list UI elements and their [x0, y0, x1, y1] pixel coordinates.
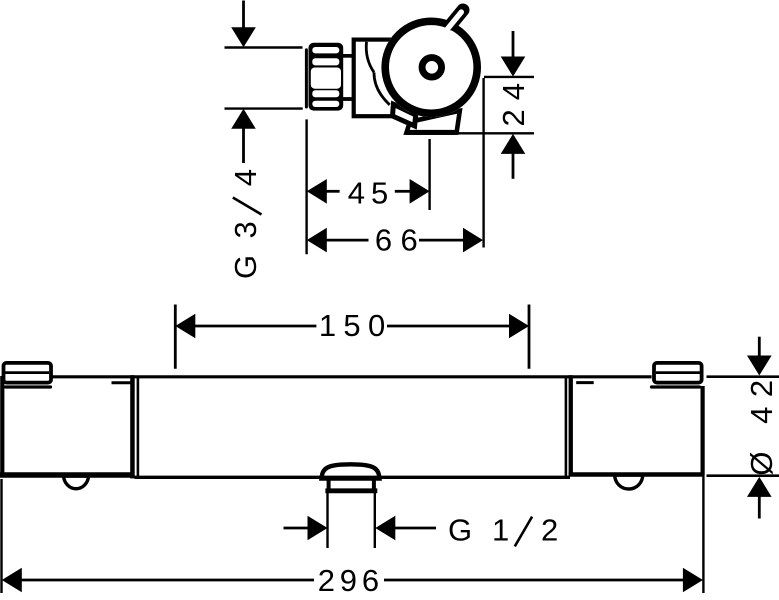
G 1/2 left extension line — [326, 493, 328, 548]
outlet box left edge — [327, 478, 331, 491]
foot plate bottom edge — [406, 130, 457, 135]
lever inner white — [447, 12, 462, 30]
dimension G 3/4 bottom arrow — [231, 109, 256, 129]
dimension G 3/4 bottom extension line — [225, 107, 303, 109]
svg-text:G: G — [228, 255, 263, 279]
cartridge scallop lower petal — [374, 72, 390, 105]
bar top edge — [2, 375, 652, 378]
foot plate — [407, 111, 460, 133]
dimension 150 right extension line — [528, 305, 531, 369]
right bar edge thin — [565, 376, 568, 476]
right block bottom edge — [569, 472, 703, 477]
extension line below nut — [305, 119, 307, 254]
right volume knob tab — [615, 475, 643, 489]
union nut chamfer bar — [305, 48, 308, 108]
bracket band — [393, 104, 416, 126]
handle disc ring — [385, 21, 477, 113]
dimension G 3/4 top extension line — [225, 46, 303, 48]
neck top bar — [342, 54, 354, 58]
left block bottom edge — [0, 472, 135, 478]
left wall cap — [4, 363, 52, 383]
dimension 24 bottom extension line — [458, 132, 534, 134]
dimension G 3/4 top arrow — [242, 1, 245, 30]
extension line below foot center — [428, 139, 430, 210]
dimension 296 right extension line — [702, 474, 704, 593]
dimension 24 top arrow — [512, 31, 515, 59]
diameter 42 top arrow — [758, 337, 761, 358]
svg-text:66: 66 — [375, 222, 426, 257]
right divider — [569, 375, 573, 474]
diameter 42 bottom extension line — [707, 474, 779, 477]
left divider — [130, 375, 135, 478]
dimension 150 — [175, 314, 195, 339]
outlet box right edge — [372, 478, 376, 491]
dimension 296 left extension line — [0, 479, 2, 593]
diameter 42 bottom arrow — [747, 477, 772, 497]
outlet box bottom edge — [325, 488, 377, 493]
svg-text:150: 150 — [319, 308, 393, 343]
right wall cap — [654, 363, 702, 383]
left equals mark — [112, 381, 132, 384]
svg-text:4: 4 — [228, 169, 263, 186]
svg-text:2: 2 — [541, 513, 558, 548]
left block left edge — [0, 376, 4, 477]
left volume knob tab — [64, 476, 89, 489]
dimension 24 top extension line — [484, 76, 534, 78]
svg-text:Ø 42: Ø 42 — [744, 370, 779, 475]
G 1/2 right extension line — [374, 493, 376, 548]
union nut body — [309, 43, 344, 111]
union nut slot 4 — [312, 101, 339, 107]
svg-text:3: 3 — [228, 221, 263, 238]
right equals mark — [576, 381, 594, 384]
svg-text:24: 24 — [496, 74, 531, 126]
lever outer — [452, 10, 464, 24]
union nut middle band — [311, 68, 341, 89]
cartridge scallop upper petal — [366, 42, 374, 73]
dimension 296 — [2, 568, 22, 593]
dimension 66 — [307, 228, 327, 253]
neck bottom bar — [342, 97, 354, 101]
svg-text:1: 1 — [492, 513, 509, 548]
svg-text:45: 45 — [348, 175, 394, 210]
diameter 42 top extension line — [707, 375, 779, 378]
dimension 150 left extension line — [174, 305, 177, 369]
handle disc fill — [381, 18, 481, 118]
dimension 45 — [307, 179, 327, 204]
svg-text:G: G — [448, 513, 472, 548]
left bar edge thin — [137, 376, 140, 477]
valve body — [354, 40, 416, 117]
G 1/2 left arrow — [284, 527, 309, 530]
bar bottom edge — [135, 476, 571, 479]
dimension 24 bottom arrow — [501, 134, 526, 154]
union nut slot 1 — [312, 47, 339, 53]
union nut slot 3 — [312, 90, 339, 97]
right block right edge — [700, 386, 704, 475]
union nut slot 2 — [312, 58, 339, 65]
G 1/2 right arrow — [375, 516, 395, 541]
svg-text:296: 296 — [318, 563, 384, 598]
extension line right of circle — [482, 78, 484, 248]
outlet dome — [322, 464, 380, 478]
handle hub — [422, 58, 442, 78]
